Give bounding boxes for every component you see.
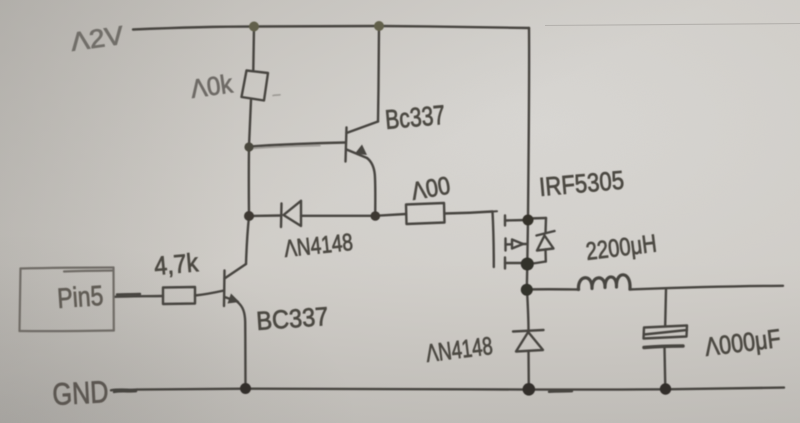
svg-text:Bc337: Bc337 (384, 100, 446, 135)
svg-text:BC337: BC337 (255, 301, 329, 336)
svg-text:Pin5: Pin5 (56, 280, 104, 314)
svg-text:4,7k: 4,7k (153, 247, 200, 281)
svg-text:GND: GND (52, 374, 110, 412)
svg-text:Λ0k: Λ0k (189, 68, 236, 104)
